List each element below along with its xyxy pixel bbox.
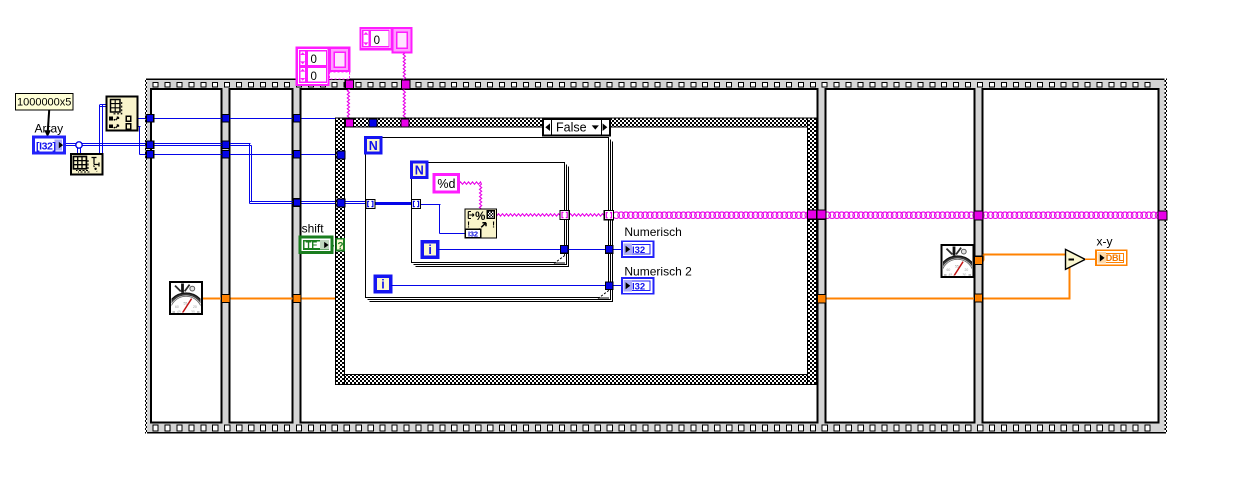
svg-text:1000000x5: 1000000x5 (17, 96, 71, 108)
string wire %d constant to format node (459, 182, 482, 210)
indicator x-y (DBL) (1096, 250, 1127, 265)
wire I32 from inner left tunnel to format node (420, 205, 465, 234)
tunnel outer loop right (outer i wire) (606, 282, 614, 290)
free label 1000000x5 (16, 94, 74, 111)
indicator Numerisch (I32) (622, 241, 654, 257)
wire 1D array between loop left tunnels (375, 202, 412, 205)
case tunnel left (array W2) (337, 199, 345, 207)
case tunnel top (string 2) (401, 119, 409, 127)
case tunnel left (I32 W3) (337, 151, 345, 159)
seq tunnel left border W1 (146, 115, 154, 123)
svg-text:0: 0 (311, 54, 317, 66)
wire W3 (I32) from index icon second output to case left (138, 127, 342, 155)
svg-text:x-y: x-y (1097, 235, 1113, 249)
seq tunnel divider1 W3 (222, 151, 230, 159)
svg-text:i: i (428, 243, 431, 257)
seq tunnel divider2 W2 (293, 199, 301, 207)
svg-text:I32: I32 (468, 230, 478, 239)
case tunnel right (string array) (808, 210, 817, 219)
Array control terminal [I32] (34, 137, 65, 153)
autoindex tunnel outer loop left (366, 199, 375, 208)
Tick Count (ms) 2 (stopwatch icon) (938, 245, 977, 294)
case structure border (False frame) (336, 118, 817, 385)
seq tunnel divider2 W3 (293, 151, 301, 159)
seq tunnel top band string 1 (345, 80, 353, 88)
array size node (71, 154, 103, 174)
string-array wire from case to sequence right border (segment 1) (824, 212, 1162, 219)
wire I32 inner i to Numerisch (437, 249, 622, 251)
svg-text:I32: I32 (632, 245, 645, 256)
for loop (inner) border (412, 163, 569, 267)
sequence sprocket holes bottom row (153, 425, 1150, 431)
string wire format node output through loop tunnels (497, 214, 609, 216)
wire array into outer loop left autoindex tunnel (345, 202, 367, 204)
autoindex tunnel outer loop right (string) (604, 211, 613, 220)
sequence frame 5 interior (983, 89, 1159, 423)
svg-text:[I32]: [I32] (36, 140, 56, 152)
sequence frame 2 interior (230, 89, 293, 423)
svg-text:TF: TF (306, 240, 318, 251)
autoindex tunnel inner loop right (string) (560, 210, 569, 219)
seq tunnel divider2 orange (293, 294, 301, 302)
case tunnel top (string 1) (346, 119, 354, 127)
svg-text:I32: I32 (632, 282, 645, 293)
autoindex tunnel inner loop left (411, 199, 420, 208)
svg-text:N: N (369, 139, 378, 153)
array control 2 (1D string array) index/element (360, 28, 411, 53)
svg-text:!: ! (492, 220, 495, 230)
seq tunnel divider4 string array (974, 211, 983, 220)
svg-text:%: % (475, 211, 485, 223)
format node U1 (number to string) (465, 209, 497, 239)
seq tunnel divider1 orange (222, 294, 230, 302)
flat sequence structure frame (145, 79, 1167, 434)
sequence frame 3 interior (301, 89, 818, 423)
svg-text:N: N (415, 163, 424, 177)
tunnel inner loop right (i wire) (561, 246, 569, 254)
case tunnel top (I32) (369, 119, 377, 127)
sequence frame 1 interior (151, 89, 222, 423)
array control 1 (2D string array) index/element (297, 48, 350, 85)
indicator Numerisch 2 (I32) (622, 278, 654, 294)
subtract node x-y (1066, 249, 1086, 269)
iteration terminal i (inner) (422, 242, 438, 258)
wire W2 (array) from Array terminal across frames, jog down, to case left (65, 144, 342, 204)
wire W1 (I32) from index icon into sequence to case top tunnel (138, 118, 374, 120)
string array wire outer tunnel to case right (613, 212, 812, 219)
case selector label "False" (543, 119, 610, 136)
case selector terminal ? (336, 239, 344, 252)
tunnel outer loop right (i wire) (606, 246, 614, 254)
svg-text:0: 0 (374, 35, 380, 47)
for loop (outer) border (366, 138, 613, 302)
svg-text:Array: Array (35, 122, 64, 136)
svg-text:!: ! (467, 220, 470, 230)
string wire from array control 2 down to case tunnel (403, 53, 405, 120)
seq tunnel divider2 W1 (293, 115, 301, 123)
string constant %d (434, 175, 459, 193)
svg-text:False: False (556, 120, 587, 134)
label arrow (44, 110, 51, 137)
svg-text:20: 20 (965, 268, 969, 272)
seq tunnel right border string array (1158, 211, 1167, 220)
boolean terminal shift (TF) (300, 237, 332, 252)
string wire from array control 1 down to case tunnel (347, 71, 349, 120)
svg-text:Numerisch: Numerisch (624, 225, 681, 239)
svg-text:0: 0 (311, 71, 317, 83)
sequence sprocket holes top row (153, 82, 1150, 87)
index/build array node (107, 96, 138, 130)
seq tunnel divider3 string array (817, 210, 826, 219)
svg-text:shift: shift (302, 221, 325, 235)
wire junction (branch to size node) (76, 142, 82, 155)
svg-text:%d: %d (437, 177, 455, 191)
sequence frame 4 interior (826, 89, 975, 423)
seq tunnel divider1 W1 (222, 115, 230, 123)
seq tunnel divider4 orange (975, 294, 983, 302)
wire I32 outer i to Numerisch 2 (391, 285, 622, 287)
seq tunnel top band string 2 (401, 80, 410, 89)
seq tunnel divider1 W2 (222, 141, 230, 149)
svg-text:20: 20 (193, 305, 197, 309)
svg-text:Numerisch 2: Numerisch 2 (624, 264, 692, 278)
seq tunnel left border W3 (146, 151, 154, 159)
wire (DBL ms) from divider3 to subtract y input (826, 267, 1070, 299)
loop count terminal N (outer) (366, 138, 382, 154)
wire from Tick Count 2 to subtract x input (974, 255, 1066, 261)
svg-text:?: ? (337, 241, 343, 252)
Tick Count (ms) 1 (stopwatch icon) (167, 282, 206, 331)
loop count terminal N (inner) (412, 162, 428, 178)
seq tunnel divider3 orange (817, 295, 826, 304)
svg-text:i: i (381, 278, 384, 292)
svg-text:DBL: DBL (1106, 253, 1124, 263)
seq tunnel left border W2 (146, 141, 154, 149)
iteration terminal i (outer) (375, 276, 391, 292)
wire subtract output to DBL indicator (1085, 258, 1096, 260)
boolean wire shift to case selector (333, 245, 337, 247)
svg-text:60: 60 (175, 305, 179, 309)
svg-text:60: 60 (947, 268, 951, 272)
wire (DBL ms) from Tick Count 1 to case left border (202, 298, 336, 300)
seq tunnel divider4 clock (975, 256, 983, 264)
wire from size node output to index icon input (100, 105, 107, 155)
